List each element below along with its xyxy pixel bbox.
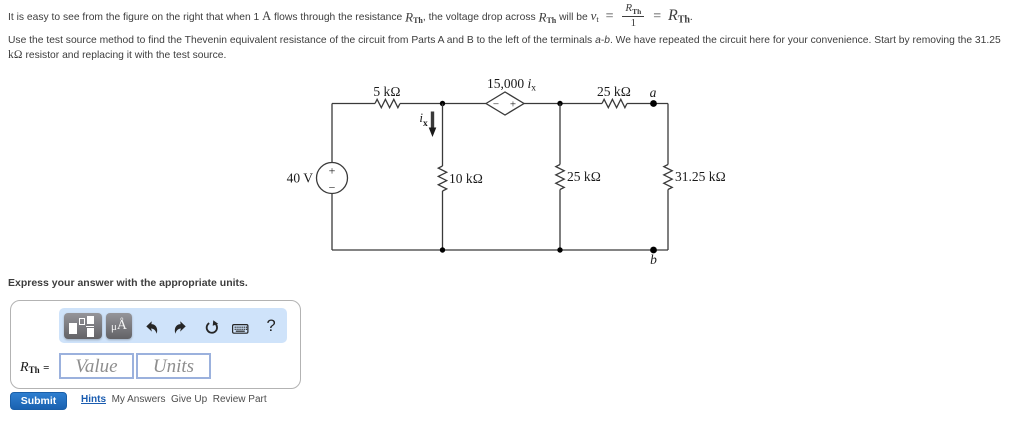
resistor R 31.25k vertical zigzag (664, 165, 672, 190)
wire left branch lower (331, 194, 333, 251)
answer label RTh = (20, 360, 49, 376)
icon reset (204, 320, 219, 335)
wire top rail left segment (332, 103, 375, 105)
toolbar button micro-angstrom (106, 313, 132, 339)
voltage source V1 40V circle (317, 163, 348, 194)
toolbar (59, 308, 287, 343)
wire right branch upper (667, 104, 669, 165)
wire branch 10k upper (442, 104, 444, 167)
node junction dot bottom x=560 (557, 247, 562, 252)
svg-text:a: a (650, 85, 657, 100)
svg-text:5 kΩ: 5 kΩ (373, 84, 400, 99)
node b dot (650, 247, 657, 254)
dependent source U1 diamond 15000 ix (486, 92, 524, 115)
wire branch 25k lower (559, 190, 561, 251)
node junction dot top x=442.5 (440, 101, 445, 106)
svg-text:+: + (510, 99, 516, 111)
svg-text:b: b (650, 252, 657, 267)
svg-text:25 kΩ: 25 kΩ (567, 169, 601, 184)
svg-text:x: x (423, 119, 428, 129)
svg-text:−: − (493, 99, 499, 111)
svg-text:10 kΩ: 10 kΩ (449, 171, 483, 186)
wire branch 25k upper (559, 104, 561, 165)
icon undo (146, 321, 158, 334)
current ix arrow (431, 112, 434, 131)
resistor R 5k zigzag (375, 99, 400, 107)
icon help (267, 317, 276, 336)
node junction dot bottom x=442.5 (440, 247, 445, 252)
wire branch 10k lower (442, 191, 444, 250)
wire top rail to corner (627, 103, 668, 105)
resistor R 25k horizontal zigzag (602, 99, 627, 107)
resistor R 25k vertical zigzag (556, 165, 564, 190)
submit button (10, 392, 67, 410)
answer outer box (10, 300, 301, 389)
node a dot (650, 100, 657, 107)
links row (81, 394, 267, 405)
svg-text:15,000 ix: 15,000 ix (487, 76, 536, 94)
icon keyboard (232, 324, 249, 334)
wire bottom rail (332, 249, 668, 251)
wire top rail middle segment (400, 103, 486, 105)
svg-text:40 V: 40 V (287, 171, 314, 186)
paragraph 1 (8, 3, 1020, 33)
wire left branch upper (331, 104, 333, 163)
svg-text:25 kΩ: 25 kΩ (597, 84, 631, 99)
svg-text:−: − (329, 181, 336, 195)
circuit figure (280, 70, 740, 275)
wire right branch lower (667, 190, 669, 251)
resistor R 10k vertical zigzag (438, 166, 446, 191)
input units (136, 353, 211, 379)
svg-text:31.25 kΩ: 31.25 kΩ (675, 169, 726, 184)
node junction dot top x=560 (557, 101, 562, 106)
toolbar button templates (64, 313, 102, 339)
paragraph 2 (8, 34, 1022, 64)
express answer instruction (8, 277, 248, 289)
input value (59, 353, 134, 379)
icon redo (174, 321, 186, 334)
svg-text:+: + (329, 164, 336, 178)
wire top rail right-middle segment (524, 103, 602, 105)
